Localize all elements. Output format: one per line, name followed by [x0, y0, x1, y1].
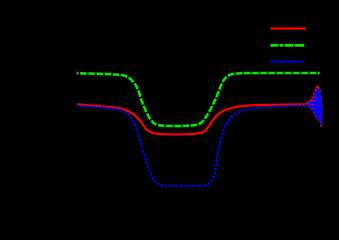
legend green line — [271, 44, 306, 47]
legend blue line — [271, 60, 305, 62]
legend red line — [271, 27, 307, 29]
green curve (dashed light curve) — [77, 73, 320, 126]
red start blip — [76, 71, 78, 73]
blue curve (dotted light curve) — [77, 88, 322, 186]
red curve (solid light curve with ringing at right end) — [77, 86, 322, 135]
